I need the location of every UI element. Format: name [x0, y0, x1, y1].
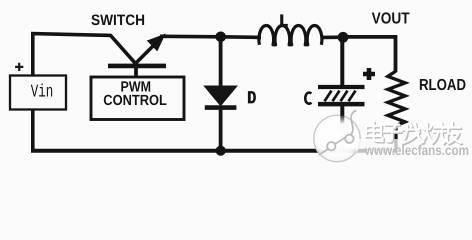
- svg-text:RLOAD: RLOAD: [419, 77, 466, 94]
- transistor switch: base bar: [108, 64, 166, 69]
- transistor switch: arrow line with head: [136, 46, 154, 64]
- wire: diode to ground rail: [219, 108, 223, 151]
- plus sign of capacitor: [363, 68, 375, 80]
- wire: node SW down to diode: [219, 37, 223, 87]
- svg-text:VOUT: VOUT: [372, 11, 410, 28]
- svg-text:SWITCH: SWITCH: [91, 12, 145, 29]
- wire: node SW to inductor: [222, 35, 261, 39]
- inductor L coil: [259, 25, 322, 44]
- wire: Vin top to switch (left vertical + top horizontal): [33, 34, 111, 76]
- transistor switch: left slope line: [110, 35, 136, 64]
- svg-text:Vin: Vin: [31, 83, 54, 103]
- resistor RLOAD zigzag: [388, 71, 405, 151]
- junction dot on ground rail: [216, 146, 226, 156]
- capacitor C hatched bottom plate: [325, 91, 356, 102]
- wire: bottom ground rail: [31, 149, 398, 153]
- voltage source Vin box: [10, 76, 66, 110]
- node SW junction dot: [215, 32, 226, 43]
- PWM control box U1: [91, 77, 184, 120]
- wire: node VOUT to top-right corner and down to RLOAD: [343, 37, 396, 72]
- svg-text:www.elecfans.com: www.elecfans.com: [364, 142, 469, 158]
- wire: capacitor to ground rail: [340, 106, 344, 151]
- wire: switch base to PWM box: [134, 66, 138, 77]
- wire: node VOUT down to capacitor: [340, 37, 344, 86]
- wire: switch to node SW: [160, 34, 222, 38]
- diode D triangle: [205, 86, 237, 105]
- capacitor C top plate: [318, 85, 365, 89]
- plus sign of Vin: [15, 63, 23, 71]
- label L: [280, 14, 288, 26]
- node VOUT junction dot: [338, 32, 349, 43]
- svg-text:CONTROL: CONTROL: [103, 93, 167, 109]
- diode D cathode bar: [205, 105, 237, 110]
- wire: inductor to node VOUT: [322, 35, 344, 39]
- watermark white glow under url text: [356, 139, 472, 159]
- label D: [248, 91, 256, 103]
- wire: Vin bottom to ground rail: [31, 110, 35, 151]
- label C: [305, 93, 311, 104]
